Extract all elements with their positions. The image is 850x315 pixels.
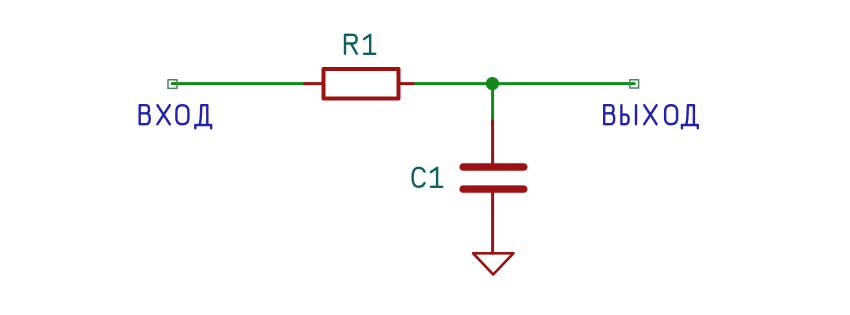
pin square left (dangling end marker): [168, 80, 177, 89]
resistor R1 right lead: [399, 82, 416, 85]
wire vertical segment: [491, 84, 494, 121]
resistor R1 body: [324, 69, 399, 99]
label ВЫХОД: [604, 105, 698, 128]
wire left segment: [172, 82, 304, 85]
capacitor C1 top pin: [491, 121, 494, 164]
label R1: [345, 35, 375, 54]
pin square right (dangling end marker): [630, 80, 639, 88]
label C1: [413, 168, 443, 187]
capacitor C1 bottom pin: [491, 193, 494, 254]
junction dot: [486, 77, 499, 90]
ground symbol: [473, 253, 513, 274]
label ВХОД: [140, 105, 212, 128]
capacitor C1 bottom plate: [463, 185, 524, 192]
resistor R1 left lead: [305, 82, 324, 85]
wire right segment: [416, 82, 635, 85]
capacitor C1 top plate: [463, 163, 524, 170]
